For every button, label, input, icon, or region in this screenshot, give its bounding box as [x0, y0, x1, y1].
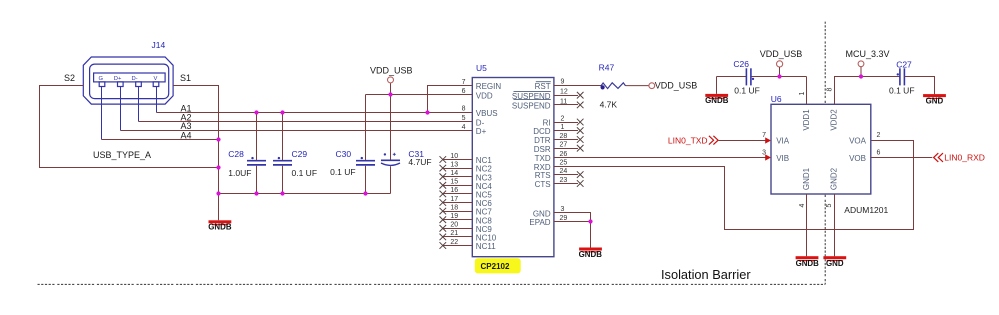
- svg-text:VIB: VIB: [776, 154, 789, 163]
- no-connect X marks right pins: [577, 92, 584, 187]
- svg-text:C26: C26: [733, 59, 749, 69]
- no-connect X marks NC1-NC11: [440, 156, 447, 249]
- svg-text:S1: S1: [180, 73, 191, 83]
- svg-text:GNDB: GNDB: [796, 259, 820, 268]
- svg-text:2: 2: [561, 115, 565, 122]
- svg-text:GNDB: GNDB: [208, 223, 232, 232]
- IC U6 ADUM1201 box: [771, 104, 871, 194]
- svg-text:GNDB: GNDB: [705, 96, 729, 105]
- svg-text:A4: A4: [181, 130, 192, 140]
- svg-text:7: 7: [762, 132, 766, 139]
- svg-text:D-: D-: [476, 118, 485, 127]
- wire TXD to U6 VIB: [554, 157, 766, 159]
- capacitor C27: [889, 60, 915, 96]
- node junction S2/S1: [216, 165, 220, 169]
- svg-text:GND1: GND1: [802, 167, 811, 190]
- wire A4: [102, 139, 219, 141]
- svg-text:D-: D-: [131, 76, 137, 82]
- wire VDD net to U5 pin6: [366, 94, 473, 96]
- node junction rail/C30: [363, 191, 367, 195]
- node junction rail/GNDB: [216, 191, 220, 195]
- ground GNDB below U5: [579, 248, 603, 259]
- capacitor C29: [273, 113, 317, 194]
- svg-text:VDD_USB: VDD_USB: [655, 80, 698, 90]
- connector J14 USB_TYPE_A body: [83, 57, 173, 104]
- svg-text:J14: J14: [152, 40, 166, 50]
- wire RXD to U6 VOA: [554, 141, 914, 230]
- svg-text:24: 24: [560, 168, 568, 175]
- svg-text:GND: GND: [926, 96, 944, 105]
- svg-text:17: 17: [450, 196, 458, 203]
- node junction MCU_3.3V/C27: [859, 74, 863, 78]
- svg-text:0.1 UF: 0.1 UF: [292, 168, 318, 178]
- svg-text:D+: D+: [114, 76, 122, 82]
- capacitor C30: [330, 95, 375, 194]
- svg-text:VDD_USB: VDD_USB: [760, 49, 803, 59]
- wire VDD_USB to U6 pin1: [806, 77, 808, 105]
- overline RST: [536, 81, 551, 83]
- power VDD_USB right of R47: [649, 80, 697, 90]
- value CP2102 highlighted: [475, 258, 521, 273]
- svg-text:4: 4: [799, 204, 806, 208]
- wire U6 pin5 GND2: [834, 194, 836, 256]
- connector J14 pin labels: [99, 76, 158, 82]
- svg-text:LIN0_TXD: LIN0_TXD: [668, 135, 708, 145]
- U6 pin names: [776, 109, 866, 190]
- svg-text:VDD2: VDD2: [830, 109, 839, 131]
- node junction VDD_USB/C26: [777, 74, 781, 78]
- svg-text:2: 2: [877, 132, 881, 139]
- svg-text:GND: GND: [533, 209, 551, 218]
- U5 NC pin stubs with no-connects: [443, 160, 473, 246]
- svg-text:RST: RST: [535, 82, 551, 91]
- svg-text:LIN0_RXD: LIN0_RXD: [944, 153, 985, 163]
- svg-text:C28: C28: [228, 149, 244, 159]
- svg-text:20: 20: [450, 222, 458, 229]
- wire LIN0_TXD to U6 VIA: [719, 140, 766, 142]
- svg-text:12: 12: [560, 89, 568, 96]
- svg-text:22: 22: [450, 239, 458, 246]
- wire U5 pin9 RST to R47: [554, 85, 601, 87]
- overline SUSPEND pin11: [514, 99, 551, 101]
- svg-text:3: 3: [762, 150, 766, 157]
- svg-text:5: 5: [826, 204, 833, 208]
- wire U6 pin4 GND1: [806, 194, 808, 256]
- svg-text:VOB: VOB: [849, 154, 866, 163]
- ground GND right of C27: [904, 77, 945, 106]
- svg-text:23: 23: [560, 177, 568, 184]
- wire S2: [40, 86, 219, 168]
- wire S1 to ground rail: [173, 86, 218, 221]
- power VDD_USB above U6: [760, 49, 803, 77]
- svg-text:RTS: RTS: [535, 171, 551, 180]
- svg-text:25: 25: [560, 160, 568, 167]
- svg-text:C30: C30: [336, 149, 352, 159]
- ground GNDB below USB: [208, 220, 232, 231]
- svg-text:ADUM1201: ADUM1201: [844, 205, 888, 215]
- svg-text:C27: C27: [896, 60, 912, 70]
- svg-text:15: 15: [450, 179, 458, 186]
- ground GNDB below U6 pin4: [796, 256, 820, 268]
- svg-text:CP2102: CP2102: [481, 262, 510, 271]
- svg-text:26: 26: [560, 151, 568, 158]
- svg-text:1.0UF: 1.0UF: [228, 168, 251, 178]
- wire USB pin V vertical: [156, 87, 158, 113]
- svg-text:S2: S2: [64, 73, 75, 83]
- svg-text:8: 8: [462, 106, 466, 113]
- svg-text:DCD: DCD: [533, 127, 551, 136]
- wire U5 pin7 REGIN to VBUS: [428, 86, 473, 113]
- wire USB pin G vertical: [101, 87, 103, 140]
- svg-text:29: 29: [560, 215, 568, 222]
- U6 pin numbers: [762, 88, 880, 208]
- svg-text:VOA: VOA: [849, 137, 867, 146]
- overline SUSPEND pin12: [514, 91, 551, 93]
- power MCU_3.3V: [846, 49, 890, 77]
- wire U5 pin29 EPAD: [554, 221, 591, 223]
- port LIN0_TXD: [668, 135, 718, 145]
- isolation barrier dashed vertical: [824, 22, 826, 285]
- node junction A1/C29: [280, 110, 284, 114]
- svg-text:EPAD: EPAD: [529, 218, 550, 227]
- svg-text:U5: U5: [476, 63, 487, 73]
- wire A1 VBUS: [157, 112, 473, 114]
- svg-text:14: 14: [450, 170, 458, 177]
- wire USB pin D- vertical: [138, 87, 140, 122]
- isolation barrier dashed horizontal: [38, 283, 826, 285]
- wire USB pin D+ vertical: [120, 87, 122, 131]
- svg-text:USB_TYPE_A: USB_TYPE_A: [93, 150, 151, 160]
- svg-text:4.7K: 4.7K: [600, 99, 618, 109]
- svg-text:U6: U6: [771, 94, 782, 104]
- svg-text:CTS: CTS: [535, 180, 551, 189]
- svg-text:6: 6: [877, 150, 881, 157]
- svg-text:DSR: DSR: [534, 145, 551, 154]
- svg-text:7: 7: [462, 79, 466, 86]
- svg-text:TXD: TXD: [535, 154, 551, 163]
- ground GNDB left of C26: [705, 77, 729, 106]
- svg-text:MCU_3.3V: MCU_3.3V: [846, 49, 890, 59]
- port LIN0_RXD: [934, 153, 985, 163]
- svg-text:18: 18: [450, 204, 458, 211]
- svg-text:Isolation Barrier: Isolation Barrier: [661, 267, 751, 282]
- wire U6 VOB to LIN0_RXD: [871, 157, 933, 159]
- svg-text:19: 19: [450, 213, 458, 220]
- node junction GND/EPAD: [588, 219, 592, 223]
- wire A3 D+: [121, 130, 473, 132]
- arrow into VIB: [765, 154, 771, 160]
- svg-text:VDD1: VDD1: [802, 109, 811, 131]
- wire ground rail under capacitors: [219, 193, 391, 195]
- svg-text:GND2: GND2: [830, 167, 839, 190]
- U5 left pin numbers: [450, 79, 465, 246]
- svg-text:NC11: NC11: [476, 242, 496, 251]
- svg-text:G: G: [99, 76, 104, 82]
- svg-text:4: 4: [462, 124, 466, 131]
- svg-text:VBUS: VBUS: [476, 109, 498, 118]
- svg-text:6: 6: [462, 88, 466, 95]
- svg-text:9: 9: [561, 79, 565, 86]
- node junction A1/REGIN drop: [425, 110, 429, 114]
- junction dots left area: [216, 92, 429, 195]
- svg-text:C29: C29: [292, 149, 308, 159]
- svg-text:0.1 UF: 0.1 UF: [330, 167, 356, 177]
- svg-text:GNDB: GNDB: [579, 250, 603, 259]
- wire A2 D-: [139, 121, 473, 123]
- svg-text:R47: R47: [599, 63, 615, 73]
- svg-text:GND: GND: [826, 259, 844, 268]
- svg-text:1: 1: [561, 124, 565, 131]
- arrow into VIA: [765, 137, 771, 143]
- capacitor C26: [717, 59, 807, 96]
- node junction VDD/C31: [388, 92, 392, 96]
- svg-text:SUSPEND: SUSPEND: [512, 102, 551, 111]
- wire U5 pin3 GND: [554, 213, 591, 248]
- wire MCU_3.3V rail to U6 pin8: [835, 77, 900, 105]
- wire R47 to VDD_USB: [626, 85, 649, 87]
- svg-text:13: 13: [450, 161, 458, 168]
- capacitor C28: [228, 113, 266, 194]
- ground GND below U6 pin5: [823, 256, 846, 268]
- svg-text:10: 10: [450, 153, 458, 160]
- U5 right pin numbers: [560, 79, 568, 222]
- node junction rail/C29: [280, 191, 284, 195]
- svg-text:27: 27: [560, 142, 568, 149]
- U5 right pin names: [512, 82, 551, 227]
- svg-text:DTR: DTR: [534, 136, 551, 145]
- svg-text:1: 1: [799, 92, 806, 96]
- capacitor C31 polarized: [381, 83, 432, 194]
- svg-text:VIA: VIA: [776, 137, 790, 146]
- U5 right unused pin stubs: [554, 96, 578, 184]
- svg-text:4.7UF: 4.7UF: [408, 157, 431, 167]
- power VDD_USB top: [370, 66, 413, 83]
- svg-text:8: 8: [826, 88, 833, 92]
- node junction rail/C28: [254, 191, 258, 195]
- svg-text:D+: D+: [476, 127, 487, 136]
- svg-text:28: 28: [560, 133, 568, 140]
- svg-text:0.1 UF: 0.1 UF: [734, 86, 760, 96]
- svg-text:REGIN: REGIN: [476, 82, 502, 91]
- svg-text:0.1 UF: 0.1 UF: [889, 85, 915, 95]
- svg-text:5: 5: [462, 115, 466, 122]
- resistor R47: [599, 63, 626, 110]
- node junction A4/S1: [216, 137, 220, 141]
- U5 left pin names: [476, 82, 502, 251]
- svg-text:VDD_USB: VDD_USB: [370, 66, 413, 76]
- svg-text:V: V: [153, 76, 157, 82]
- node junction A1/C28: [254, 110, 258, 114]
- svg-text:VDD: VDD: [476, 92, 493, 101]
- IC U5 CP2102 box: [472, 78, 554, 257]
